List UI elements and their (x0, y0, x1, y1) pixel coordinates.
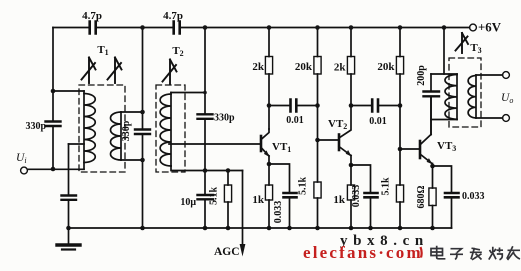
resistor R7 5.1k (314, 140, 321, 228)
svg-text:0.033: 0.033 (462, 191, 485, 202)
wire C7 to node (298, 105, 318, 107)
wire C8 to node (379, 105, 400, 107)
wire T3 secondary top lead (476, 74, 503, 76)
capacitor C12 0.033 (445, 193, 459, 197)
svg-text:0.033: 0.033 (273, 201, 284, 224)
node x205 bottom bus (203, 226, 208, 231)
capacitor C1 4.7p (90, 22, 96, 34)
svg-text:4.7p: 4.7p (163, 10, 183, 22)
node VT3 base tee (398, 147, 403, 152)
node x400 top rail (398, 25, 403, 30)
watermark logo tail mark (421, 247, 422, 258)
node x351 top rail (349, 25, 354, 30)
svg-text:elecfans·com: elecfans·com (303, 243, 423, 262)
svg-text:+6V: +6V (478, 21, 502, 35)
resistor R10 680ohm (429, 188, 436, 206)
capacitor C8 0.01 (372, 100, 378, 112)
svg-text:330p: 330p (214, 113, 235, 124)
wire top rail segment 2 (97, 27, 173, 29)
svg-text:0.01: 0.01 (286, 115, 304, 126)
node x269 top rail (267, 25, 272, 30)
svg-text:330p: 330p (25, 121, 46, 132)
svg-text:0.01: 0.01 (369, 116, 387, 127)
wire T3 feed column (443, 28, 445, 75)
node 5.1k top (226, 168, 231, 173)
wire VT3 emitter (432, 164, 434, 167)
trimmer arrow T1 left (82, 58, 96, 84)
inductor T3 secondary winding (468, 75, 476, 118)
wire 1k emitter resistor column VT1 (268, 164, 270, 228)
wire bias node row (205, 170, 243, 172)
node R9 bottom bus (398, 226, 403, 231)
node 0.01b left (349, 103, 354, 108)
wire left tank rail x53 (52, 28, 54, 170)
capacitor C7 0.01 (291, 100, 297, 112)
inductor T1 secondary winding (111, 112, 122, 160)
capacitor C6 10u (198, 195, 214, 199)
wire VT2 emitter to C11 (351, 165, 371, 192)
svg-text:T3: T3 (470, 42, 481, 55)
node R8 bottom bus (349, 226, 354, 231)
node VT3 emitter (430, 164, 435, 169)
wire T2 tank column x205 (204, 28, 206, 229)
node Ui junction (51, 167, 56, 172)
node 0.01 left (267, 103, 272, 108)
capacitor bypass at input (62, 196, 77, 200)
svg-text:VT1: VT1 (272, 141, 291, 154)
wire bottom ground bus (69, 227, 452, 229)
inductor T3 primary winding (445, 74, 457, 120)
AGC arrowhead (240, 244, 246, 257)
terminal output bottom circle (503, 115, 510, 122)
svg-text:200p: 200p (416, 65, 427, 86)
terminal output top circle (503, 72, 510, 79)
resistor R8 1k (347, 185, 354, 200)
trimmer arrow T1 right (108, 58, 122, 84)
wire tap/ground column x68.5 (68, 144, 70, 228)
wire to C8 (351, 105, 371, 107)
resistor R9 5.1k (396, 149, 403, 228)
resistor R3 2k (347, 28, 354, 106)
wire 680 emitter resistor column (432, 166, 434, 228)
wire VT3 emitter to C12 (433, 166, 452, 192)
transistor VT1 (261, 129, 270, 157)
resistor R4 20k (396, 28, 403, 106)
inductor T1 primary winding (84, 91, 95, 169)
svg-text:5.1k: 5.1k (209, 187, 220, 206)
transformer T3 shield dashed box (449, 58, 481, 127)
trimmer arrow T3 (456, 33, 469, 53)
trimmer arrow T2 (163, 60, 177, 85)
wire VT3 base line (400, 148, 419, 150)
node T3 column top rail (442, 25, 447, 30)
node x142.5 top rail (140, 25, 145, 30)
wire VT2 emitter (350, 156, 352, 166)
wire Ui input line (28, 168, 85, 170)
svg-text:AGC: AGC (214, 246, 240, 258)
watermark chinese characters dianzi fashaoyou (431, 246, 520, 260)
wire VT3 collector (430, 98, 432, 135)
transistor VT2 (339, 106, 352, 157)
resistor R5 5.1k (224, 171, 231, 229)
svg-text:4.7p: 4.7p (82, 10, 102, 22)
node x317.5 top rail (315, 25, 320, 30)
svg-text:1k: 1k (333, 194, 346, 206)
wire top rail segment 1 (53, 27, 89, 29)
capacitor C10 0.033 (284, 193, 297, 197)
capacitor C4 330p (135, 130, 150, 135)
svg-text:20k: 20k (295, 61, 313, 73)
wire T1 secondary top lead (121, 111, 143, 113)
svg-text:10μ: 10μ (180, 197, 196, 208)
capacitor C11 0.033 (365, 193, 378, 197)
wire AGC feed (242, 171, 244, 245)
wire to C7 (269, 105, 289, 107)
wire top rail segment 3 (181, 27, 470, 29)
svg-text:T1: T1 (97, 44, 108, 57)
svg-text:680Ω: 680Ω (416, 185, 427, 208)
svg-text:1k: 1k (252, 194, 265, 206)
capacitor C5 330p (198, 114, 213, 119)
node 0.01b right (398, 103, 403, 108)
svg-text:330p: 330p (121, 120, 132, 141)
svg-text:5.1k: 5.1k (298, 177, 309, 196)
capacitor C2 4.7p (174, 22, 180, 34)
resistor R2 20k (314, 28, 321, 106)
wire T3 primary bottom lead (431, 119, 457, 121)
wire T1 tank column x142.5 (142, 28, 144, 229)
inductor T2 winding (160, 93, 171, 167)
wire 1k emitter resistor column VT2 (350, 165, 352, 228)
wire VT3 base column (399, 106, 401, 150)
node 0.01 right (315, 103, 320, 108)
svg-text:2k: 2k (334, 62, 347, 74)
node C10 bottom bus (287, 226, 292, 231)
node x205 top rail (203, 25, 208, 30)
ground symbol (57, 228, 80, 250)
capacitor C3 330p (46, 122, 61, 127)
wire VT1 emitter to C10 (269, 164, 290, 192)
svg-text:T2: T2 (172, 45, 183, 58)
svg-text:Uo: Uo (501, 92, 513, 105)
wire T3 top tee (431, 73, 457, 75)
node bias row x205 (203, 168, 208, 173)
node T1 sec bottom (140, 158, 145, 163)
svg-text:2k: 2k (252, 61, 265, 73)
wire VT1 emitter (268, 156, 270, 164)
wire C12 bottom (451, 199, 453, 229)
svg-text:5.1k: 5.1k (381, 177, 392, 196)
node 1k bottom bus (267, 226, 272, 231)
terminal Ui input circle (21, 167, 28, 174)
node 5.1k bottom bus (226, 226, 231, 231)
wire T1 primary tap to bypass (69, 143, 85, 145)
wire T2 bottom lead (171, 166, 205, 171)
node x142.5 bottom bus (140, 226, 145, 231)
node T1 top lead junction (51, 89, 56, 94)
svg-text:Ui: Ui (16, 152, 27, 165)
wire T1 secondary bottom lead (121, 159, 143, 161)
wire VT2 base line (318, 139, 338, 141)
wire VT1 collector (268, 106, 270, 130)
svg-text:20k: 20k (377, 61, 395, 73)
svg-text:VT3: VT3 (437, 140, 456, 153)
node R7 bottom bus (315, 226, 320, 231)
node VT2 emitter (349, 163, 354, 168)
terminal +6V circle (470, 24, 477, 31)
capacitor C9 200p (424, 74, 440, 135)
wire T1 primary top lead (53, 90, 84, 92)
wire C10 bottom (289, 199, 291, 229)
svg-text:VT2: VT2 (328, 118, 347, 131)
wire C11 bottom (370, 199, 372, 229)
node ground bus start (66, 226, 71, 231)
wire VT1 base line (169, 143, 260, 145)
node T2 top lead tee (203, 91, 207, 95)
node VT2 base tee (315, 138, 320, 143)
transformer T1 shield dashed box (79, 85, 125, 172)
svg-text:0.033: 0.033 (351, 185, 362, 208)
resistor R6 1k (265, 185, 272, 200)
resistor R1 2k (265, 28, 272, 106)
transistor VT3 (420, 135, 433, 165)
transformer T2 shield dashed box (156, 85, 185, 172)
node VT1 emitter (267, 162, 272, 167)
node R10 bottom bus (430, 226, 435, 231)
wire VT2 base column (317, 106, 319, 141)
wire T2 top lead (171, 92, 205, 94)
wire T3 secondary bottom lead (476, 117, 503, 119)
node T1 sec top (140, 110, 145, 115)
node C11 bottom bus (368, 226, 373, 231)
